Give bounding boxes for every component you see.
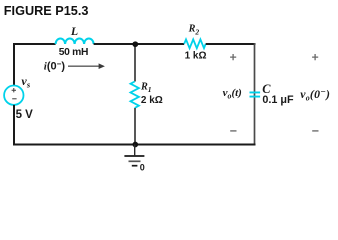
svg-text:vo(t): vo(t) bbox=[223, 87, 242, 101]
wire top-left segment bbox=[13, 43, 56, 45]
ground stub bbox=[134, 145, 136, 156]
svg-text:0: 0 bbox=[140, 163, 145, 173]
source plus sign bbox=[12, 88, 16, 92]
current arrow bbox=[68, 65, 100, 67]
plus sign vo(t) bbox=[230, 54, 236, 60]
svg-text:50 mH: 50 mH bbox=[59, 47, 88, 58]
wire top-middle segment bbox=[94, 43, 185, 45]
svg-text:R1: R1 bbox=[140, 82, 152, 95]
svg-text:R2: R2 bbox=[188, 24, 200, 37]
svg-text:vs: vs bbox=[21, 74, 31, 90]
voltage source Vs circle bbox=[4, 86, 23, 105]
plus sign vo(0-) bbox=[312, 54, 318, 60]
capacitor C plates bbox=[250, 92, 261, 94]
resistor R1 zigzag bbox=[131, 82, 139, 109]
svg-text:vo(0−): vo(0−) bbox=[300, 87, 330, 103]
svg-text:5 V: 5 V bbox=[16, 109, 34, 121]
junction node bottom bbox=[132, 142, 138, 148]
wire middle upper bbox=[134, 44, 136, 82]
resistor R2 zigzag bbox=[184, 39, 206, 48]
junction node top bbox=[132, 41, 138, 47]
svg-text:i(0−): i(0−) bbox=[44, 59, 66, 72]
svg-text:2 kΩ: 2 kΩ bbox=[141, 95, 163, 106]
inductor L coil bbox=[56, 39, 94, 45]
minus sign vo(t) bbox=[230, 130, 236, 132]
wire left upper bbox=[13, 43, 15, 86]
svg-text:FIGURE P15.3: FIGURE P15.3 bbox=[4, 4, 89, 18]
wire bottom bbox=[14, 144, 256, 146]
ground bar 1 bbox=[124, 155, 144, 157]
wire left lower bbox=[13, 105, 15, 146]
wire top-right segment bbox=[206, 43, 256, 45]
svg-text:1 kΩ: 1 kΩ bbox=[185, 51, 207, 62]
wire right bbox=[254, 43, 256, 146]
ground bar 3 bbox=[132, 165, 138, 167]
minus sign vo(0-) bbox=[312, 130, 318, 132]
svg-text:0.1 μF: 0.1 μF bbox=[262, 94, 294, 106]
svg-text:L: L bbox=[70, 24, 78, 38]
wire middle lower bbox=[134, 108, 136, 145]
source minus sign bbox=[12, 98, 16, 100]
ground bar 2 bbox=[129, 160, 141, 162]
